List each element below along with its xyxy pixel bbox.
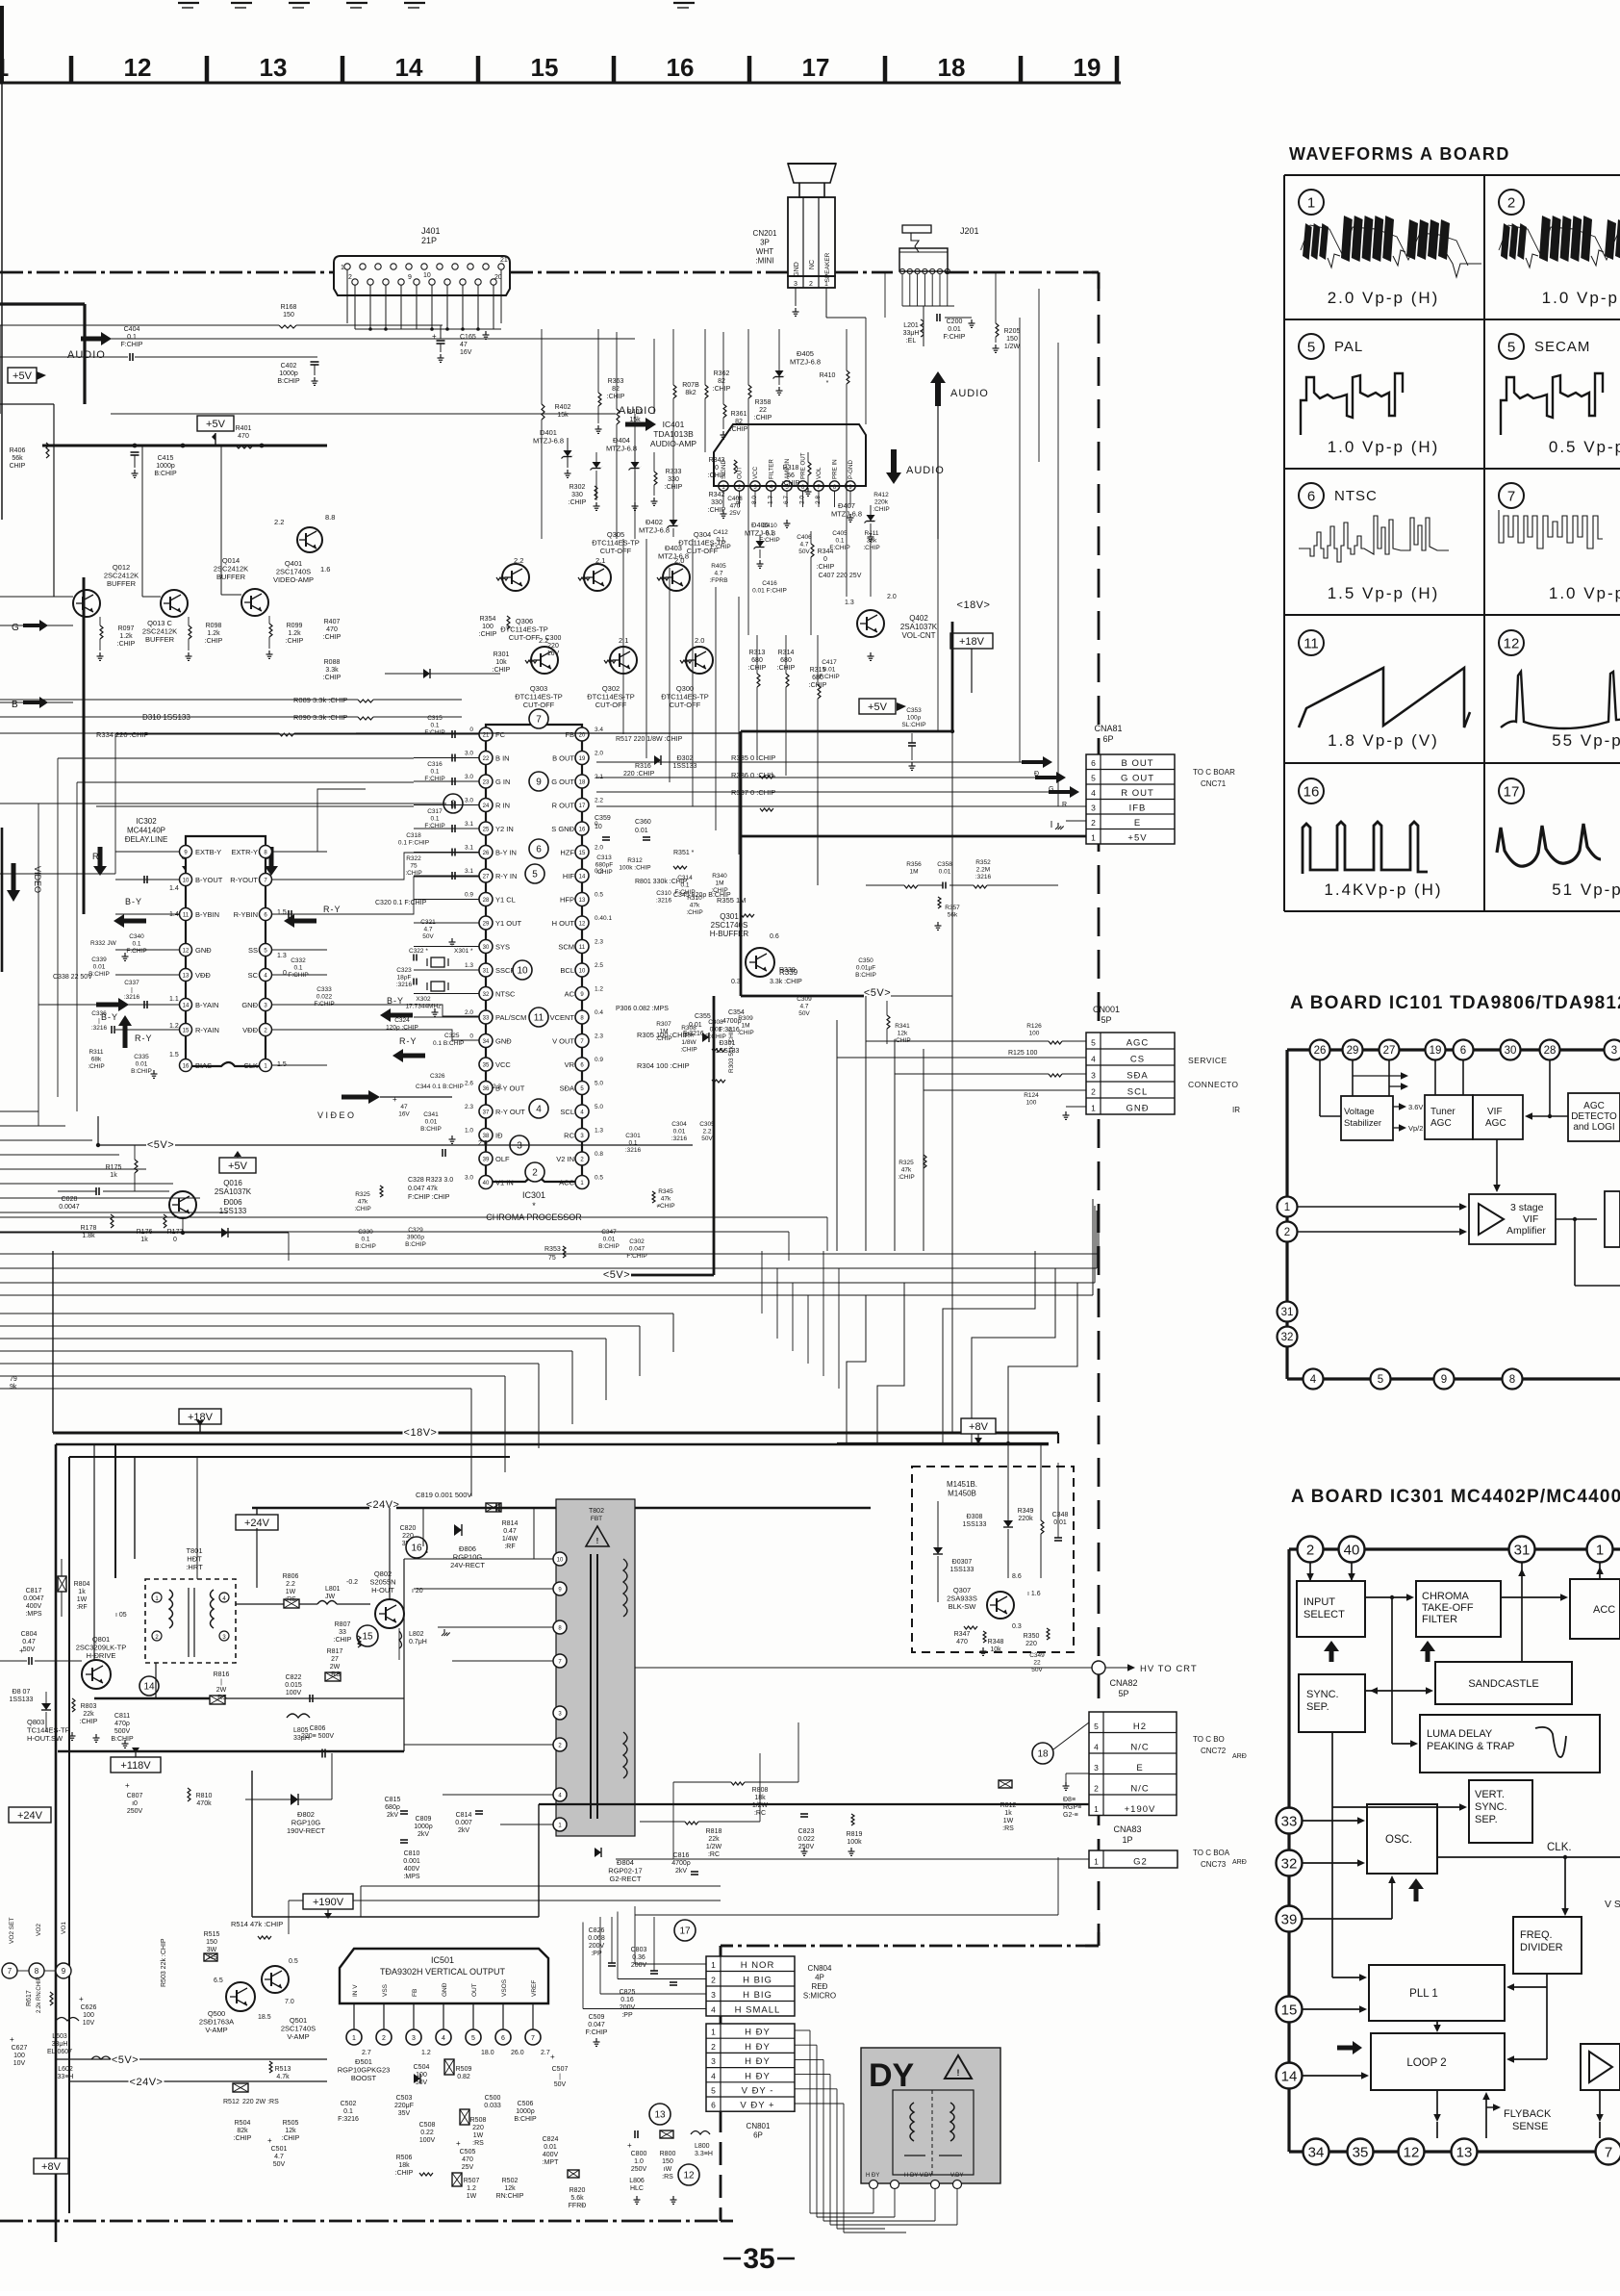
IC301 pin 37 (479, 1105, 493, 1118)
svg-text:R818: R818 (706, 1828, 722, 1835)
svg-text:CN201: CN201 (753, 229, 777, 238)
svg-text:1: 1 (1596, 1542, 1604, 1558)
svg-text:R305 100 :CHIP: R305 100 :CHIP (637, 1031, 690, 1039)
svg-text:0.9: 0.9 (465, 892, 473, 899)
svg-text:0.9: 0.9 (595, 1057, 603, 1063)
svg-text:10V: 10V (83, 2020, 95, 2027)
svg-text:C800: C800 (631, 2151, 647, 2157)
svg-text:330: 330 (571, 492, 583, 498)
svg-text:+: + (550, 2053, 555, 2061)
IC301 pin 34 (479, 1034, 493, 1048)
svg-text:R342: R342 (709, 492, 725, 498)
transistor Q401 (297, 527, 322, 552)
svg-text:22: 22 (1033, 1660, 1041, 1667)
svg-text::RS: :RS (662, 2174, 673, 2181)
svg-text:C823: C823 (798, 1828, 815, 1835)
IC302 pin 9 (180, 846, 192, 858)
IC301 pin 9 (575, 987, 589, 1001)
svg-text:EXTB-Y: EXTB-Y (195, 848, 221, 856)
svg-text:12: 12 (1404, 2144, 1420, 2160)
svg-text:+5V: +5V (206, 419, 226, 430)
bias wires (0, 1232, 221, 1234)
svg-text:1M: 1M (715, 880, 723, 887)
IC101 pin 2 (1278, 1222, 1298, 1242)
ruler tick (1019, 56, 1024, 83)
svg-text:R307: R307 (656, 1021, 671, 1028)
svg-text:RGP≡: RGP≡ (1063, 1804, 1081, 1811)
svg-text:0.1: 0.1 (343, 2108, 353, 2115)
transistor Q014 (241, 589, 268, 616)
svg-text:C330: C330 (358, 1229, 373, 1236)
svg-text:OLF: OLF (495, 1155, 510, 1163)
svg-text:2.2: 2.2 (274, 518, 284, 526)
svg-text:22: 22 (759, 407, 767, 414)
wave circle 18 (1032, 1743, 1053, 1764)
svg-text:V ĐY -: V ĐY - (742, 2086, 774, 2097)
18V vertical (951, 622, 954, 731)
svg-text::3216: :3216 (625, 1147, 642, 1154)
svg-text:IC302: IC302 (136, 817, 157, 826)
svg-text:0.5: 0.5 (289, 1958, 298, 1965)
B G R arrows to CNA81 (1022, 760, 1043, 764)
svg-text:12: 12 (683, 2171, 695, 2181)
FBT warning triangle (586, 1526, 609, 1546)
svg-text:32: 32 (1281, 1855, 1298, 1872)
svg-text:33≡H: 33≡H (58, 2074, 74, 2080)
svg-text:R-YAIN: R-YAIN (195, 1026, 219, 1034)
svg-text:F:CHIP: F:CHIP (586, 2029, 608, 2036)
svg-text:1: 1 (341, 265, 344, 271)
IC301 wires (1309, 1563, 1311, 1581)
cutoff transistor row2 (531, 647, 558, 674)
svg-text:7: 7 (1507, 488, 1515, 504)
svg-text:33μH: 33μH (52, 2041, 68, 2048)
svg-text:C344 0.1 B:CHIP: C344 0.1 B:CHIP (416, 1084, 464, 1090)
svg-text:1P: 1P (1122, 1835, 1132, 1845)
svg-text:A BOARD IC301 MC4402P/MC4400: A BOARD IC301 MC4402P/MC44007 (1291, 1487, 1620, 1507)
IC302 pin 3 (260, 999, 272, 1011)
svg-text:ı 1.6: ı 1.6 (1027, 1591, 1041, 1597)
svg-text:CLK.: CLK. (1547, 1842, 1572, 1853)
IC302 pin 15 (180, 1024, 192, 1036)
svg-text:0.40.1: 0.40.1 (595, 915, 612, 922)
CN801 wires to DY (795, 2029, 810, 2031)
svg-text::CHIP: :CHIP (873, 506, 889, 513)
R078 resistor (673, 385, 676, 398)
svg-text:R410: R410 (820, 372, 836, 379)
svg-text::CHIP: :CHIP (80, 1719, 98, 1725)
svg-text:B-Y: B-Y (125, 897, 142, 906)
svg-text:6.7: 6.7 (783, 496, 790, 504)
board boundary bottom (0, 2220, 721, 2223)
svg-text:0: 0 (283, 970, 287, 977)
svg-text:3: 3 (517, 1141, 522, 1152)
svg-text:2.0: 2.0 (595, 845, 603, 852)
R515 resistor (204, 1953, 217, 1961)
svg-text:4.7: 4.7 (274, 2154, 284, 2160)
svg-text:0.007: 0.007 (455, 1820, 472, 1826)
waveform cell 6 NTSC (1299, 483, 1324, 508)
svg-text:15k: 15k (557, 412, 569, 419)
svg-text:18k: 18k (754, 1795, 766, 1801)
left edge stub wires (0, 1110, 38, 1112)
svg-text::CHIP: :CHIP (493, 667, 511, 674)
svg-text:B:CHIP: B:CHIP (514, 2116, 537, 2123)
IC101 pin 6 (1454, 1040, 1474, 1060)
svg-text:2.1: 2.1 (595, 774, 603, 780)
svg-text:R810: R810 (196, 1793, 213, 1799)
svg-text:C335: C335 (134, 1054, 149, 1060)
svg-text:Stabilizer: Stabilizer (1344, 1118, 1381, 1129)
svg-text:4.7: 4.7 (799, 1004, 808, 1010)
svg-text:H BIG: H BIG (743, 1990, 772, 2001)
svg-text:0: 0 (823, 556, 827, 563)
svg-text:OSC.: OSC. (1385, 1834, 1412, 1846)
IC301 chroma processor body (486, 725, 582, 1182)
svg-text:4: 4 (711, 2071, 716, 2080)
svg-text:100: 100 (83, 2012, 94, 2019)
svg-text:C807: C807 (127, 1793, 143, 1799)
svg-text:2kV: 2kV (418, 1831, 429, 1838)
svg-text:31: 31 (483, 969, 490, 975)
svg-text:R-YOUT: R-YOUT (230, 876, 258, 884)
emitter resistors (100, 625, 103, 639)
svg-text:+: + (432, 332, 437, 341)
svg-text:1M: 1M (909, 869, 918, 876)
svg-text:0: 0 (469, 727, 473, 733)
svg-text:E: E (1136, 1763, 1143, 1773)
svg-text:12: 12 (579, 922, 586, 928)
svg-text::CHIP: :CHIP (607, 394, 625, 400)
svg-text:2: 2 (1507, 194, 1515, 211)
svg-text:3.0: 3.0 (465, 798, 473, 804)
svg-text:1.5: 1.5 (277, 1061, 287, 1068)
IC401 pin stems and parts (722, 491, 724, 507)
svg-text:R804: R804 (74, 1581, 90, 1588)
T801 transformer (145, 1579, 236, 1663)
IC301 loop2 box (1371, 2033, 1505, 2090)
svg-text:14: 14 (1281, 2068, 1298, 2084)
thick L bus lower (56, 1443, 1049, 1446)
svg-text:9: 9 (1441, 1374, 1447, 1386)
svg-text:C358: C358 (937, 861, 952, 868)
svg-text:47: 47 (460, 342, 468, 348)
svg-text:R412: R412 (873, 492, 889, 498)
svg-text:1.2k: 1.2k (207, 630, 220, 637)
svg-text:3.0: 3.0 (465, 751, 473, 757)
svg-text:Đ8 07: Đ8 07 (13, 1689, 31, 1696)
svg-text:220: 220 (472, 2125, 484, 2131)
svg-text:6.5: 6.5 (214, 1977, 223, 1984)
svg-text:28: 28 (483, 898, 490, 904)
svg-text:R402: R402 (555, 404, 571, 411)
B-Y arrow to IC301 (391, 1013, 413, 1018)
waveform cell 1 (1299, 190, 1324, 215)
svg-text:9k: 9k (10, 1384, 17, 1390)
svg-text:11: 11 (1304, 635, 1319, 651)
svg-text:150: 150 (1006, 336, 1018, 343)
svg-text:47k: 47k (690, 903, 700, 909)
svg-text::CHIP: :CHIP (713, 386, 731, 393)
svg-text:30: 30 (483, 945, 490, 951)
svg-text:11: 11 (534, 1013, 544, 1024)
svg-text:+24V: +24V (244, 1518, 270, 1529)
svg-text:Voltage: Voltage (1344, 1107, 1375, 1117)
svg-text:F:CHIP: F:CHIP (944, 334, 966, 341)
svg-text:0.5 Vp-p: 0.5 Vp-p (1549, 438, 1620, 456)
svg-text:1: 1 (0, 53, 9, 82)
svg-text:5.6k: 5.6k (570, 2195, 584, 2202)
ruler tick (205, 56, 210, 83)
svg-text:3: 3 (1094, 1763, 1099, 1773)
svg-text::CHIP: :CHIP (282, 2135, 300, 2142)
svg-text:15: 15 (531, 53, 559, 82)
IC101 pin 26 (1310, 1040, 1330, 1060)
svg-text::3216: :3216 (124, 994, 140, 1001)
speaker icon (788, 164, 836, 197)
svg-text:*: * (532, 1201, 536, 1211)
svg-text:1W: 1W (473, 2132, 484, 2139)
svg-text:1.2: 1.2 (467, 2185, 476, 2192)
svg-text:1SS133: 1SS133 (10, 1696, 34, 1703)
svg-text::CHIP: :CHIP (395, 2170, 414, 2177)
svg-text:R800: R800 (660, 2151, 676, 2157)
svg-text:0.1: 0.1 (127, 334, 137, 341)
IC302 pin 11 (180, 908, 192, 921)
svg-text:ıW: ıW (664, 2166, 672, 2173)
IC302 pin 1 (260, 1059, 272, 1072)
R508 resistor (460, 2109, 469, 2125)
svg-text:CNC73: CNC73 (1201, 1860, 1227, 1869)
svg-text:10: 10 (183, 879, 190, 884)
svg-text:1: 1 (711, 2028, 716, 2037)
svg-text:1.0: 1.0 (634, 2158, 644, 2165)
svg-text:R819: R819 (847, 1831, 863, 1838)
svg-text:C355: C355 (695, 1013, 711, 1020)
svg-text:4: 4 (1094, 1743, 1099, 1752)
svg-text:B-YOUT: B-YOUT (195, 876, 223, 884)
+5V box mid (197, 416, 234, 431)
svg-text:MTZJ-6.8: MTZJ-6.8 (639, 526, 670, 535)
cutoff transistor row1 (502, 564, 529, 591)
C415 capacitor (131, 451, 139, 453)
svg-text:17: 17 (802, 53, 830, 82)
svg-text:SYS: SYS (495, 943, 510, 952)
svg-text:C804: C804 (21, 1631, 38, 1638)
svg-text:H ĐY: H ĐY (745, 2042, 771, 2053)
svg-text:R803: R803 (81, 1703, 97, 1710)
IC301 pll1 box (1369, 1965, 1505, 2021)
G2 feed verticals (672, 1782, 674, 1859)
svg-text:R502: R502 (502, 2178, 519, 2184)
svg-text:1/8W: 1/8W (681, 1039, 696, 1046)
svg-text:35: 35 (743, 2243, 774, 2275)
svg-text:GNĐ: GNĐ (195, 946, 212, 955)
svg-text:2kV: 2kV (387, 1812, 398, 1819)
svg-text:Q016: Q016 (223, 1179, 242, 1187)
IC302 pin 12 (180, 944, 192, 957)
svg-text:2kV: 2kV (458, 1827, 469, 1834)
svg-text:B:CHIP: B:CHIP (405, 1241, 426, 1248)
svg-text:18: 18 (579, 780, 586, 786)
R820 resistor (568, 2170, 579, 2178)
svg-text:30: 30 (1505, 1045, 1517, 1057)
svg-text:Đ0307: Đ0307 (952, 1559, 973, 1566)
svg-text:2.2: 2.2 (702, 1129, 711, 1135)
svg-text:1.3: 1.3 (845, 600, 854, 606)
svg-text:V I Đ E O: V I Đ E O (317, 1110, 354, 1120)
svg-text:FB: FB (565, 730, 574, 739)
svg-text:J201: J201 (960, 226, 979, 236)
svg-text:C412: C412 (713, 529, 728, 536)
+24V box left (9, 1807, 51, 1823)
svg-text:5: 5 (1507, 339, 1515, 355)
svg-text:RC: RC (564, 1132, 574, 1140)
svg-text:3.0: 3.0 (465, 1175, 473, 1182)
svg-text:TO C BO: TO C BO (1193, 1735, 1225, 1744)
svg-text:GNĐ: GNĐ (495, 1037, 512, 1046)
svg-text:V2 IN: V2 IN (556, 1155, 574, 1163)
IC301 pin 22 (479, 752, 493, 765)
svg-text:5: 5 (1378, 1374, 1383, 1386)
svg-text:15: 15 (183, 1029, 190, 1034)
extra mid horizontals (0, 1216, 827, 1218)
svg-text:F:CHIP :CHIP: F:CHIP :CHIP (408, 1194, 450, 1201)
svg-text:10: 10 (579, 969, 586, 975)
svg-text:V-AMP: V-AMP (205, 2026, 227, 2034)
svg-text:ARĐ: ARĐ (1232, 1753, 1247, 1760)
svg-text:AGC: AGC (1583, 1101, 1605, 1111)
svg-text:1.3: 1.3 (595, 1128, 603, 1135)
R403 resistor (617, 409, 620, 424)
svg-text:C507: C507 (552, 2066, 569, 2073)
svg-text:2.1: 2.1 (595, 556, 605, 565)
svg-text:R515: R515 (204, 1931, 220, 1938)
svg-text:6: 6 (501, 2035, 505, 2042)
svg-text:3.1: 3.1 (465, 821, 473, 828)
svg-text:C165: C165 (460, 334, 476, 341)
IC302 right wires (272, 851, 327, 853)
svg-text:VĐĐ: VĐĐ (195, 971, 211, 980)
svg-text:0.01: 0.01 (136, 1061, 148, 1068)
svg-text:33k: 33k (867, 538, 877, 545)
svg-text:R302: R302 (570, 484, 586, 491)
svg-text:0.1: 0.1 (293, 965, 302, 972)
IC301 pin 40 (479, 1176, 493, 1189)
svg-text:1: 1 (352, 2035, 356, 2042)
HV to CRT wire (635, 1667, 1093, 1669)
svg-text:SEP.: SEP. (1475, 1814, 1498, 1825)
svg-text:5: 5 (532, 870, 538, 880)
svg-text:2.0 Vp-p (H): 2.0 Vp-p (H) (1328, 289, 1440, 307)
svg-text:0.01: 0.01 (93, 964, 106, 971)
svg-text:C502: C502 (341, 2101, 357, 2107)
svg-text:50V: 50V (416, 2079, 428, 2086)
svg-text:16V: 16V (547, 651, 560, 657)
svg-text:R097: R097 (118, 625, 135, 632)
svg-text:35: 35 (483, 1063, 490, 1069)
IC101 pin 9 (1434, 1369, 1455, 1390)
svg-text:13: 13 (654, 2110, 666, 2121)
svg-text:VO1: VO1 (61, 1922, 67, 1934)
wire to buffers (53, 404, 55, 445)
svg-text:1: 1 (711, 1960, 716, 1970)
svg-text:R353: R353 (544, 1246, 561, 1253)
svg-text:18ρF: 18ρF (397, 975, 412, 982)
audio arrow up J201 (935, 383, 941, 406)
svg-text:220k: 220k (1018, 1516, 1033, 1522)
svg-text:B OUT: B OUT (1121, 758, 1153, 769)
svg-text:1k: 1k (78, 1589, 86, 1595)
svg-text:0.4: 0.4 (595, 1009, 603, 1016)
svg-text:X301 *: X301 * (454, 948, 473, 955)
svg-text:CN001: CN001 (1093, 1005, 1120, 1014)
svg-text:18: 18 (1037, 1749, 1049, 1760)
svg-text:EXTR-Y: EXTR-Y (231, 848, 258, 856)
svg-text:1: 1 (1091, 1104, 1096, 1113)
svg-text:17.7344MHz: 17.7344MHz (406, 1004, 442, 1010)
svg-text:C408: C408 (727, 496, 743, 502)
svg-text:C504: C504 (414, 2064, 430, 2071)
IC301 left caps (451, 730, 453, 738)
svg-text:8: 8 (1509, 1374, 1515, 1386)
svg-text:19: 19 (1074, 53, 1101, 82)
svg-text:*: * (826, 380, 829, 387)
R817 resistor (325, 1672, 341, 1681)
svg-text:27: 27 (483, 875, 490, 880)
svg-text:WAVEFORMS A BOARD: WAVEFORMS A BOARD (1289, 144, 1510, 164)
svg-text:NTSC: NTSC (1334, 488, 1378, 504)
IC302 pin 8 (260, 846, 272, 858)
svg-text::CHIP: :CHIP (205, 638, 223, 645)
svg-text:TO C BOA: TO C BOA (1193, 1849, 1230, 1857)
svg-text:220: 220 (547, 643, 559, 650)
svg-text:C323: C323 (396, 967, 412, 974)
svg-text:R617: R617 (26, 1990, 33, 2006)
svg-text:0.22: 0.22 (420, 2130, 434, 2136)
wave circle 16 (406, 1537, 427, 1558)
svg-text:3.1: 3.1 (465, 868, 473, 875)
svg-text:C313: C313 (596, 855, 612, 861)
svg-text:R505: R505 (283, 2120, 299, 2127)
svg-text:R514 47k :CHIP: R514 47k :CHIP (231, 1920, 283, 1928)
svg-text:C626: C626 (81, 2004, 97, 2011)
svg-text:SL:CHIP: SL:CHIP (901, 722, 925, 728)
boundary corner elbows (1085, 271, 1099, 274)
ruler tick (747, 56, 752, 83)
svg-text:Q402: Q402 (909, 614, 928, 623)
svg-text:C340: C340 (129, 933, 144, 940)
svg-text:220k: 220k (874, 499, 889, 506)
svg-text:0.01 F:CHIP: 0.01 F:CHIP (752, 588, 787, 595)
R509 resistor (444, 2059, 454, 2075)
svg-text:21P: 21P (421, 236, 437, 245)
svg-text:R817: R817 (327, 1648, 343, 1655)
+18V box rail (179, 1409, 221, 1424)
svg-text::CHIP: :CHIP (737, 1030, 753, 1036)
svg-text:S GNĐ: S GNĐ (551, 825, 574, 833)
svg-text:V S: V S (1605, 1899, 1620, 1910)
svg-text:Đ310 1SS133: Đ310 1SS133 (142, 713, 190, 722)
svg-text:1.2: 1.2 (421, 2050, 431, 2056)
svg-text:C500: C500 (485, 2095, 501, 2102)
svg-text:H-BUFFER: H-BUFFER (710, 930, 749, 938)
svg-text:32: 32 (483, 992, 490, 998)
svg-text:40: 40 (1344, 1542, 1360, 1558)
svg-text:R504: R504 (235, 2120, 251, 2127)
CN804 wires (635, 1963, 706, 1965)
IC301 left input wires (414, 733, 479, 735)
